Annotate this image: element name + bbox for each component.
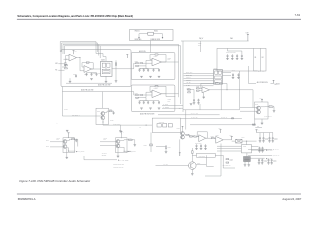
svg-text:▶ B+_AUX: ▶ B+_AUX bbox=[259, 70, 265, 73]
svg-text:R0245: R0245 bbox=[64, 108, 68, 110]
svg-text:U0301: U0301 bbox=[214, 68, 218, 70]
resistor R0223 fb bbox=[155, 54, 158, 55]
driver box outline bbox=[255, 102, 269, 119]
wire U0503 out bbox=[215, 154, 223, 156]
svg-text:TX_INJ: TX_INJ bbox=[164, 164, 169, 166]
transistor Q0205 bbox=[101, 116, 105, 120]
svg-text:A+: A+ bbox=[56, 121, 58, 124]
ground U0202 bbox=[105, 81, 108, 83]
wire box D vert a bbox=[253, 48, 255, 71]
connector box J0201 outline bbox=[130, 30, 174, 41]
node cluster2 out bbox=[124, 151, 125, 152]
capacitor C0213 bbox=[86, 73, 88, 76]
op-amp U0201-B bbox=[84, 66, 92, 73]
svg-text:R0501: R0501 bbox=[144, 144, 148, 146]
svg-text:AUDIO PA SHUTDOWN: AUDIO PA SHUTDOWN bbox=[140, 112, 154, 115]
wire driver out link bbox=[102, 120, 104, 126]
node J2 bbox=[105, 68, 108, 71]
wire interface lower bbox=[156, 146, 166, 148]
svg-text:AUX PCM/CLKIN: AUX PCM/CLKIN bbox=[257, 81, 268, 84]
ground R0506 bbox=[165, 152, 168, 154]
svg-text:August 24, 2007: August 24, 2007 bbox=[282, 197, 301, 201]
inner box D outline bbox=[217, 48, 266, 71]
capacitor C0303 bbox=[236, 54, 239, 60]
ground stage1 b bbox=[149, 76, 152, 78]
capacitor C0222 bbox=[143, 69, 145, 72]
wire left box gnd rail bbox=[66, 82, 112, 84]
svg-text:R0240: R0240 bbox=[109, 109, 112, 111]
resistor R0205 bbox=[65, 62, 66, 65]
svg-text:C0531: C0531 bbox=[265, 139, 269, 141]
svg-text:9.3V: 9.3V bbox=[259, 97, 261, 99]
wire stage1 rail drop bbox=[145, 66, 147, 68]
svg-text:R0210: R0210 bbox=[64, 63, 68, 65]
svg-text:U0202: U0202 bbox=[101, 60, 105, 62]
svg-text:R0221: R0221 bbox=[135, 61, 139, 63]
power flag AUX bbox=[273, 80, 275, 83]
pin U0502 L2 bbox=[240, 148, 241, 150]
wire U0203-B fb bbox=[150, 86, 155, 91]
capacitor C0224 bbox=[153, 69, 155, 72]
wire U0302 in a bbox=[199, 87, 202, 89]
ground stage1 c bbox=[158, 76, 161, 78]
wire U0502 left 2 bbox=[217, 148, 240, 150]
capacitor C0304 bbox=[241, 54, 244, 60]
wire Q0404 gnd bbox=[117, 148, 119, 156]
wire LO feed 2 bbox=[240, 110, 257, 112]
wire caps stub a bbox=[259, 133, 261, 137]
svg-text:Q0502: Q0502 bbox=[177, 127, 181, 129]
svg-text:2.2K: 2.2K bbox=[104, 139, 107, 141]
IC U0202 hatch a bbox=[103, 70, 109, 72]
wire bus row 2 bbox=[184, 75, 214, 77]
wire stage1 caps rail bbox=[140, 67, 160, 69]
ground mid small bbox=[66, 130, 69, 132]
wire box C lower row bbox=[181, 117, 242, 119]
svg-text:AUDIO OPT: AUDIO OPT bbox=[159, 121, 165, 124]
ground caps left bbox=[90, 78, 93, 80]
svg-text:R0406: R0406 bbox=[128, 138, 131, 140]
capacitor C0227 bbox=[143, 101, 145, 104]
svg-text:R0320: R0320 bbox=[196, 86, 199, 88]
svg-text:T0501: T0501 bbox=[241, 137, 244, 139]
svg-text:C0506 C0508: C0506 C0508 bbox=[195, 142, 202, 144]
svg-text:▶ TX_AUD_SEND: ▶ TX_AUD_SEND bbox=[118, 158, 128, 161]
ground driver bbox=[119, 131, 122, 133]
node interface in bbox=[146, 125, 147, 126]
resistor R0221 bbox=[136, 63, 139, 64]
capacitor C0311 bbox=[237, 73, 240, 79]
op-amp U0201-A bbox=[69, 54, 77, 61]
wire driver feed bbox=[62, 115, 101, 117]
wire cluster3 out bbox=[188, 135, 189, 137]
resistor R0330 bbox=[269, 106, 273, 107]
pin U0502 R2 bbox=[252, 149, 253, 151]
svg-text:Q0501: Q0501 bbox=[197, 162, 201, 164]
svg-text:10UF: 10UF bbox=[198, 45, 201, 47]
svg-text:AUX: AUX bbox=[179, 107, 181, 110]
wire bus line 2 bbox=[62, 43, 98, 52]
wire cluster1 out bbox=[69, 150, 76, 152]
svg-text:C0211: C0211 bbox=[98, 72, 102, 74]
IC U0202 inner block 1 bbox=[102, 63, 105, 67]
IC U0202 inner block 3 bbox=[102, 69, 110, 74]
wire box D caps stub bbox=[227, 48, 229, 51]
header rule bbox=[17, 18, 301, 20]
varistor VR2051 body bbox=[148, 32, 154, 35]
wire bus line 3 drop bbox=[98, 44, 100, 55]
resistor R0229 bbox=[136, 97, 139, 98]
resistor R0240 bbox=[109, 111, 112, 112]
svg-text:9.3V: 9.3V bbox=[229, 135, 232, 137]
resistor R0218 bbox=[115, 63, 116, 66]
resistor R0322 fb bbox=[215, 83, 219, 84]
svg-text:SPK2: SPK2 bbox=[46, 145, 49, 147]
wire U0202 gnd stub bbox=[105, 76, 107, 81]
wire opampB in bbox=[214, 137, 216, 139]
wire box C bottom edge bbox=[183, 109, 239, 111]
transistor Q0311 bbox=[257, 110, 261, 114]
node U0302 out bbox=[226, 88, 229, 91]
svg-text:U0502: U0502 bbox=[243, 146, 246, 148]
wire caps rail left bbox=[87, 72, 97, 74]
wire U0502 left 3 bbox=[217, 150, 240, 152]
svg-text:HSIO_TX: HSIO_TX bbox=[186, 77, 191, 79]
wire aux row 0 bbox=[254, 70, 258, 72]
svg-text:A+: A+ bbox=[258, 129, 260, 132]
svg-text:VR2051: VR2051 bbox=[135, 31, 140, 33]
capacitor C0508 bbox=[204, 144, 207, 150]
svg-text:▶ LO_SMALL: ▶ LO_SMALL bbox=[265, 115, 272, 118]
svg-text:R0514: R0514 bbox=[230, 160, 234, 162]
wire U0502 right 2 bbox=[253, 149, 265, 151]
wire U0302 in b bbox=[199, 90, 202, 92]
wire audio rail bbox=[62, 91, 131, 93]
capacitor C0302 bbox=[231, 54, 234, 60]
wire cluster2 in 2 bbox=[100, 144, 116, 146]
IC U0502 body bbox=[241, 145, 251, 153]
wire Q0501 coll top bbox=[192, 154, 196, 156]
svg-text:7-63: 7-63 bbox=[295, 13, 301, 17]
svg-text:R0508 R0509: R0508 R0509 bbox=[189, 134, 196, 136]
resistor R0514 bbox=[226, 162, 229, 163]
wire Q0402 gnd bbox=[66, 148, 68, 157]
capacitor C0212 bbox=[91, 73, 93, 76]
capacitor C0509 bbox=[258, 147, 261, 153]
ground U0302 in bbox=[202, 97, 205, 99]
wire cluster1 in 1 bbox=[50, 141, 63, 143]
svg-text:6816982H01-A: 6816982H01-A bbox=[18, 197, 36, 201]
svg-text:J2: J2 bbox=[140, 127, 142, 129]
wire bus drop b bbox=[96, 50, 98, 52]
wire return row bbox=[190, 124, 255, 126]
power flag cluster3 bbox=[179, 153, 181, 156]
svg-text:CONN TO J0401-12: CONN TO J0401-12 bbox=[113, 166, 123, 168]
wire block right bbox=[251, 157, 265, 159]
wire bus line 1 bbox=[60, 42, 96, 52]
svg-text:Schematics, Component Location: Schematics, Component Location Diagrams,… bbox=[17, 15, 133, 18]
svg-text:C0535: C0535 bbox=[264, 161, 268, 163]
svg-text:U0203A: U0203A bbox=[154, 55, 158, 58]
wire TX AUD drop bbox=[83, 156, 85, 160]
wire LO feed 1 bbox=[240, 107, 257, 109]
ground LO bbox=[261, 123, 264, 125]
wire stage1 out bbox=[162, 61, 179, 63]
driver block outline bbox=[96, 108, 108, 124]
svg-text:10PF: 10PF bbox=[168, 100, 171, 102]
capacitor C0310 bbox=[232, 73, 235, 79]
resistor R0310 bbox=[188, 89, 191, 90]
wire U0202 output bbox=[112, 68, 131, 70]
capacitor C0223 bbox=[147, 69, 149, 72]
wire U0201-B feedback bbox=[82, 63, 86, 67]
transistor Q0502 bbox=[181, 132, 185, 136]
wire R0240 link bbox=[105, 111, 110, 112]
resistor R0506 bbox=[166, 146, 167, 149]
resistor R0320 bbox=[196, 88, 199, 89]
resistor R0508 bbox=[190, 136, 193, 137]
ground x116 bbox=[115, 81, 118, 83]
wire rail drop x200 bbox=[200, 41, 202, 52]
wire right vert bbox=[205, 155, 207, 166]
cluster1 box outline bbox=[63, 138, 75, 153]
wire bus row 4 bbox=[184, 80, 214, 82]
node cluster1 out bbox=[68, 151, 69, 152]
svg-text:AUX_TX_AUD: AUX_TX_AUD bbox=[191, 112, 198, 115]
pin U0502 L1 bbox=[240, 145, 241, 147]
wire stage2 rail drop bbox=[145, 98, 147, 101]
wire opampA in bbox=[192, 136, 194, 138]
wire stage2 caps rail bbox=[140, 100, 160, 102]
svg-text:▶ AUX_RX: ▶ AUX_RX bbox=[274, 154, 280, 157]
wire AUX row bbox=[249, 83, 257, 85]
wire rail drop left bbox=[61, 87, 63, 92]
power flag 9.3V bbox=[247, 35, 249, 42]
resistor R0211 bbox=[65, 68, 68, 69]
wire Q0501 collector bbox=[191, 148, 193, 151]
capacitor C0313 bbox=[197, 99, 200, 105]
wire box C bottom mid bbox=[158, 114, 220, 116]
wire right link bbox=[206, 165, 213, 167]
wire box D caps rail bbox=[228, 50, 242, 52]
wire cluster2 right bbox=[120, 139, 129, 142]
svg-text:PA-5: PA-5 bbox=[230, 37, 233, 40]
wire opampB out bbox=[223, 139, 231, 141]
wire U0202 top lead bbox=[105, 57, 107, 62]
svg-text:10PF: 10PF bbox=[168, 59, 171, 61]
wire block link bbox=[246, 153, 248, 157]
wire driver drop to rail bbox=[102, 92, 104, 109]
wire right vert x116 bbox=[115, 60, 117, 81]
wire R0330 down bbox=[273, 107, 274, 111]
power flag U0201-A bbox=[73, 51, 75, 55]
transistor Q0503 bbox=[181, 135, 185, 139]
capacitor C0230 bbox=[158, 101, 160, 104]
svg-text:R0311: R0311 bbox=[187, 89, 191, 91]
resistor R0227 bbox=[140, 94, 143, 95]
svg-text:R0207: R0207 bbox=[86, 61, 90, 63]
ground Q0404 bbox=[117, 156, 120, 158]
resistor R0225 bbox=[136, 65, 139, 66]
wire U0203-B in a bbox=[143, 94, 152, 96]
svg-text:Q0204: Q0204 bbox=[97, 111, 101, 113]
svg-text:9.3V: 9.3V bbox=[75, 51, 77, 53]
wire cluster1 out link bbox=[67, 148, 69, 151]
wire bus row 3 bbox=[184, 77, 214, 79]
pad COMMON SPKR bbox=[162, 37, 163, 38]
ground Q0501 bbox=[191, 174, 194, 176]
capacitor C0535 bbox=[261, 159, 264, 165]
IC U0301 inner 2 bbox=[219, 71, 222, 74]
capacitor C0531 bbox=[262, 137, 265, 143]
svg-text:▶ SPI_CLK: ▶ SPI_CLK bbox=[266, 150, 273, 152]
IC U0202 hatch b bbox=[103, 71, 109, 73]
wire U0203-B in b bbox=[138, 92, 152, 98]
transistor Q0401 bbox=[63, 140, 67, 144]
wire T out down bbox=[246, 141, 248, 145]
wire LO bottom bbox=[261, 119, 263, 123]
wire U0203-A in b bbox=[138, 60, 152, 66]
svg-text:SPK1: SPK1 bbox=[46, 140, 49, 142]
wire box C lower link bbox=[190, 90, 194, 99]
resistor R0321 bbox=[196, 90, 199, 91]
connector block hatch bbox=[244, 157, 250, 159]
IC U0503 body bbox=[197, 153, 216, 157]
wire box C drop a bbox=[199, 104, 201, 110]
svg-text:MIC: MIC bbox=[55, 63, 57, 65]
relay K0502 body bbox=[163, 124, 167, 127]
wire bus line 4 drop bbox=[99, 46, 101, 58]
audio PA box stage2 outline bbox=[131, 85, 175, 112]
svg-text:R0512: R0512 bbox=[211, 136, 214, 138]
IC U0301 inner 3 bbox=[215, 76, 222, 79]
transistor Q0402 bbox=[63, 145, 67, 149]
wire U0503 drop bbox=[222, 155, 224, 168]
transistor Q0403 bbox=[116, 140, 120, 144]
capacitor C0229 bbox=[153, 101, 155, 104]
power flag opampB bbox=[220, 130, 222, 133]
wire cluster3 down bbox=[179, 139, 181, 156]
capacitor C0211 bbox=[96, 73, 98, 76]
ground stage2 a bbox=[140, 108, 143, 110]
capacitor C0510 bbox=[261, 147, 264, 153]
wire cluster1 right bbox=[67, 139, 72, 140]
IC U0301 body bbox=[214, 70, 223, 85]
wire bus row 1 bbox=[184, 72, 214, 74]
svg-text:R0402: R0402 bbox=[71, 137, 74, 139]
svg-text:R0331: R0331 bbox=[252, 123, 256, 125]
wire R0506 gnd bbox=[165, 149, 167, 152]
svg-text:Q0310: Q0310 bbox=[255, 104, 259, 106]
power flag cluster1 bbox=[68, 133, 70, 138]
ground R0330 bbox=[273, 111, 276, 113]
wire T0501 in bbox=[232, 140, 236, 142]
power flag left box bbox=[126, 55, 128, 58]
relay K0501 body bbox=[157, 124, 161, 127]
resistor R0406 bbox=[129, 139, 133, 140]
wire bus row 5 bbox=[184, 82, 214, 84]
transistor Q0310 bbox=[257, 106, 261, 110]
capacitor C0215 bbox=[75, 74, 77, 77]
resistor R0335 bbox=[232, 118, 234, 119]
wire J0201 left lead bbox=[139, 34, 148, 38]
wire stage2 out a bbox=[162, 93, 179, 95]
capacitor C0533 bbox=[272, 137, 275, 143]
capacitor C0228 bbox=[147, 101, 149, 104]
svg-text:INT_SPKR_1: INT_SPKR_1 bbox=[72, 114, 80, 116]
wire Q0501 right bbox=[196, 164, 206, 166]
wire Q0310 out bbox=[260, 106, 269, 108]
wire box A to box B bbox=[150, 41, 152, 53]
svg-text:R0330: R0330 bbox=[269, 104, 272, 106]
wire U0302 out bbox=[210, 89, 253, 91]
wire U0302 gnd stub bbox=[203, 93, 205, 97]
audio PA box stage1 outline bbox=[131, 53, 175, 80]
wire box D vert b bbox=[260, 48, 262, 71]
wire U0301 right out bbox=[223, 72, 232, 74]
svg-text:R0506: R0506 bbox=[168, 147, 171, 149]
wire caps stub b bbox=[269, 133, 271, 137]
wire box C right edge bbox=[238, 71, 240, 110]
svg-text:SPKR NEG: SPKR NEG bbox=[135, 39, 142, 41]
svg-text:A+: A+ bbox=[123, 131, 125, 134]
capacitor C0534 bbox=[258, 159, 261, 165]
svg-text:▶ EXT_SPKR+: ▶ EXT_SPKR+ bbox=[76, 151, 85, 153]
wire vert x151 bbox=[150, 132, 152, 152]
svg-text:▶ AUX_TX: ▶ AUX_TX bbox=[273, 148, 279, 151]
op-amp U0501A bbox=[199, 135, 206, 142]
svg-text:AUDIO PA 0-80 LINE: AUDIO PA 0-80 LINE bbox=[98, 84, 111, 87]
resistor R0505 bbox=[192, 151, 194, 154]
wire U0201-B input bbox=[77, 58, 85, 71]
svg-text:AUDIO PA 0-80 LINE: AUDIO PA 0-80 LINE bbox=[81, 89, 94, 92]
wire driver out bbox=[103, 124, 142, 126]
transistor Q0404 bbox=[116, 144, 120, 148]
svg-text:C0533: C0533 bbox=[274, 139, 278, 141]
svg-text:C0537: C0537 bbox=[273, 161, 277, 163]
svg-text:TP0204: TP0204 bbox=[110, 119, 114, 121]
node driver out bbox=[103, 122, 104, 123]
node J1 bbox=[79, 56, 82, 59]
svg-text:PA_SHDN: PA_SHDN bbox=[163, 103, 168, 106]
wire stage1 in bbox=[131, 63, 135, 69]
svg-text:RX: RX bbox=[55, 70, 57, 72]
svg-text:R0226: R0226 bbox=[135, 93, 139, 95]
wire inner link bbox=[96, 54, 106, 57]
wire cluster2 vert bbox=[120, 135, 122, 139]
IC U0202 body bbox=[101, 61, 112, 76]
wire U0201-A input bbox=[64, 58, 70, 60]
wire bus line 3 bbox=[63, 44, 179, 97]
wire Q0502 top bbox=[182, 129, 184, 132]
wire interface in stub bbox=[142, 124, 152, 126]
wire caps grid rail bbox=[257, 132, 274, 134]
power flag LO bbox=[261, 99, 263, 102]
capacitor C0221 bbox=[139, 69, 141, 72]
transformer T0501 bbox=[236, 139, 242, 143]
wire driver gnd stub bbox=[119, 125, 121, 131]
wire bus row 6 bbox=[184, 85, 214, 87]
svg-text:SPI_CLK_5V: SPI_CLK_5V bbox=[221, 117, 227, 119]
svg-text:C0301 C0302 C0303: C0301 C0302 C0303 bbox=[226, 52, 236, 54]
svg-text:TX_FLT_AUD: TX_FLT_AUD bbox=[191, 116, 198, 119]
svg-text:R0322: R0322 bbox=[215, 81, 218, 83]
power flag 9.3V b bbox=[231, 137, 233, 140]
resistor R0222 bbox=[140, 63, 143, 64]
wire bus drop a bbox=[95, 50, 97, 54]
wire box C drop b bbox=[185, 110, 187, 130]
ground Q0402 bbox=[66, 157, 69, 159]
